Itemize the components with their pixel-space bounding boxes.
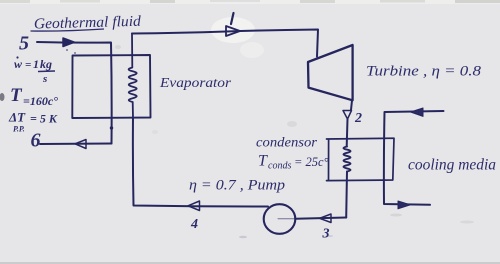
svg-text:=: = <box>25 59 31 71</box>
arrow cooling out (solid, right) <box>398 201 411 209</box>
svg-text:= 25c°: = 25c° <box>294 155 329 169</box>
label Tconds=25c <box>258 153 329 172</box>
evaporator box <box>72 55 150 118</box>
svg-text:P.P.: P.P. <box>13 125 25 134</box>
svg-text:ΔT: ΔT <box>8 110 26 125</box>
svg-text:T: T <box>10 85 23 106</box>
label T=160C <box>10 85 58 108</box>
evaporator coil <box>129 34 137 119</box>
mass flow label m=1kg/s <box>14 56 55 85</box>
arrow cooling in (solid, left) <box>411 108 424 116</box>
svg-text:1: 1 <box>33 57 39 71</box>
wire cooling media inlet <box>384 111 444 205</box>
ink blob junction on node5 line <box>110 126 113 129</box>
svg-text:condensor: condensor <box>256 135 318 150</box>
svg-text:4: 4 <box>190 217 198 232</box>
wire geothermal inlet node5 <box>37 42 112 144</box>
wire condenser coil to node3 <box>345 172 348 218</box>
underline under Geothermal <box>31 29 105 31</box>
node 1 label <box>231 13 234 24</box>
wire pump to node4 to evaporator coil <box>133 118 268 207</box>
wire geothermal outlet node6 <box>40 143 112 146</box>
svg-text:conds: conds <box>268 161 291 172</box>
arrow 3 <box>320 214 332 223</box>
label dT=5K with P.P. <box>8 110 58 134</box>
svg-text:s: s <box>42 73 47 85</box>
svg-text:cooling media: cooling media <box>408 157 496 174</box>
arrow 2 <box>343 111 352 120</box>
condenser box <box>327 138 395 180</box>
svg-text:3: 3 <box>322 227 330 242</box>
svg-text:5: 5 <box>19 33 29 55</box>
svg-text:Turbine , η = 0.8: Turbine , η = 0.8 <box>366 64 482 80</box>
turbine U1 <box>308 45 353 100</box>
svg-text:=160c°: =160c° <box>23 94 58 108</box>
pump shaft line <box>278 218 296 220</box>
arrow 1 <box>226 26 240 36</box>
arrow 6 <box>75 140 86 149</box>
arrow 5 <box>63 38 75 47</box>
svg-text:η = 0.7 , Pump: η = 0.7 , Pump <box>189 178 286 194</box>
wire node3 to pump <box>296 218 347 219</box>
wire turbine outlet node2 <box>351 100 352 110</box>
svg-text:6: 6 <box>31 130 41 152</box>
svg-text:= 5 K: = 5 K <box>30 112 58 126</box>
faint smudges <box>287 121 297 127</box>
wire into condenser coil <box>346 119 349 147</box>
white-out halo near arrow 1 <box>211 17 255 43</box>
svg-text:kg: kg <box>40 57 52 71</box>
wire top line node1 evaporator to turbine <box>132 30 318 57</box>
svg-text:Evaporator: Evaporator <box>159 76 232 91</box>
svg-text:w: w <box>14 57 23 71</box>
condenser coil <box>344 147 351 172</box>
svg-text:2: 2 <box>354 111 362 126</box>
pump P1 <box>264 204 296 234</box>
arrow 4 <box>188 201 200 211</box>
svg-text:T: T <box>258 153 268 170</box>
